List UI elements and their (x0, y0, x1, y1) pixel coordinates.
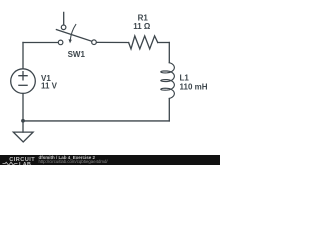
wire switch-to-resistor (96, 41, 128, 43)
footer title text (39, 155, 96, 160)
switch SW1 actuation arrow (70, 25, 76, 40)
switch SW1 blade (56, 30, 92, 42)
V1 plus sign (19, 72, 27, 80)
svg-text:L1: L1 (180, 73, 190, 82)
wire top-left horizontal (23, 42, 58, 44)
footer bar (0, 155, 220, 165)
ground stem (22, 121, 24, 132)
wire resistor-to-corner (158, 42, 170, 44)
svg-text:110 mH: 110 mH (180, 83, 208, 92)
switch SW1 arrowhead (69, 39, 72, 43)
switch SW1 top stub wire (63, 12, 65, 25)
switch SW1 left terminal (58, 40, 63, 45)
svg-text:LAB: LAB (19, 161, 31, 165)
wire right rail lower (168, 99, 170, 121)
wire bottom rail (23, 120, 169, 122)
svg-text:SW1: SW1 (68, 50, 86, 59)
switch SW1 top terminal (61, 25, 66, 30)
switch SW1 right terminal (92, 40, 97, 45)
resistor R1 (129, 36, 158, 49)
svg-text:11 Ω: 11 Ω (133, 22, 151, 31)
wire left rail upper (V1 to top) (22, 43, 24, 69)
voltage source V1 (11, 69, 36, 94)
V1 minus sign (19, 84, 27, 86)
wire left rail lower (junction to V1) (22, 94, 24, 121)
inductor L1 (161, 63, 175, 99)
node junction dot (21, 119, 25, 123)
wire right rail upper (168, 43, 170, 63)
footer logo CIRCUIT LAB (0, 155, 40, 166)
footer url text (39, 159, 108, 164)
ground (13, 132, 33, 142)
svg-text:11 V: 11 V (41, 82, 58, 91)
